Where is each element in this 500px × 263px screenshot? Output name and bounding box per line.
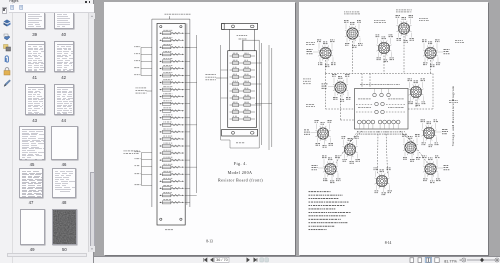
svg-text:Model 200A: Model 200A — [228, 170, 253, 175]
svg-text:Fig. 4.: Fig. 4. — [234, 161, 247, 166]
svg-text:Resistor Board (front): Resistor Board (front) — [218, 178, 263, 183]
svg-text:81.77%: 81.77% — [444, 259, 457, 263]
svg-text:36 / 70: 36 / 70 — [216, 258, 228, 262]
svg-text:Voltage and Resistance Diagram: Voltage and Resistance Diagram — [451, 86, 455, 147]
svg-text:8-14: 8-14 — [385, 241, 392, 245]
svg-text:8-13: 8-13 — [206, 240, 213, 244]
